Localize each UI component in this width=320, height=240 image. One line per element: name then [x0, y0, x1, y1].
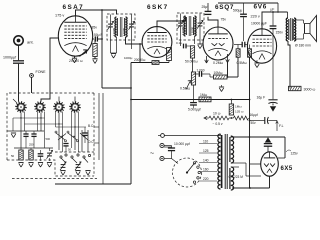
coil second leads — [13, 112, 79, 153]
svg-text:6SK7: 6SK7 — [147, 4, 169, 11]
svg-text:50μ F: 50μ F — [94, 33, 103, 37]
svg-text:Ø 180 mm: Ø 180 mm — [295, 44, 311, 48]
svg-text:85v: 85v — [92, 26, 98, 30]
capacitor 50uuf osc — [93, 33, 103, 42]
svg-text:6X5: 6X5 — [281, 166, 293, 172]
ground band b — [28, 163, 33, 168]
svg-text:3000 ω: 3000 ω — [304, 88, 316, 92]
wire secondary to speaker — [294, 20, 304, 39]
antenna terminal — [14, 36, 34, 45]
svg-text:12000: 12000 — [181, 27, 185, 35]
wire band risers — [94, 93, 103, 184]
coil L4 osc SW — [69, 101, 81, 113]
coil L2 antenna SW — [34, 101, 46, 113]
output transformer primary — [286, 18, 289, 41]
resistor 10M grid — [214, 71, 228, 79]
capacitor 10000uuf line — [162, 142, 190, 159]
wire 6X5 cathode left — [250, 163, 261, 165]
trimmer band e — [60, 162, 66, 170]
svg-text:5.000μμf: 5.000μμf — [188, 108, 201, 112]
label 10000uuf — [251, 22, 267, 26]
top bus wire — [218, 3, 279, 13]
svg-text:1Mω: 1Mω — [235, 105, 242, 109]
capacitor 6V6 grid coupling — [234, 42, 247, 48]
label 500 band — [46, 137, 51, 141]
IFT1 shield box dashed — [107, 14, 135, 40]
label O.C. — [88, 140, 95, 144]
IFT1 stub wires — [111, 15, 132, 50]
capacitor tone across primary — [270, 12, 277, 99]
IFT1 core — [120, 17, 122, 37]
svg-text:FONE: FONE — [36, 70, 47, 74]
svg-text:~: ~ — [150, 151, 154, 158]
wire row y124 — [25, 123, 63, 124]
label 150v — [276, 31, 284, 35]
wire load to pot — [192, 58, 194, 72]
svg-text:10Mω: 10Mω — [214, 71, 223, 75]
ground IFT2 right stub — [197, 40, 202, 49]
ground 6V6 heater — [254, 60, 259, 68]
IFT2 trimmer right — [197, 20, 203, 28]
svg-text:175 v: 175 v — [55, 14, 64, 18]
wire 6SK7 plate up — [157, 17, 186, 27]
oscillator grid arrow — [80, 50, 88, 57]
capacitor band c — [38, 150, 44, 161]
band box dashed outline — [7, 93, 94, 176]
wire AVC bus horizontal — [131, 99, 250, 101]
label 175v — [55, 14, 64, 18]
wire 6SA7 plate up — [76, 10, 117, 16]
svg-text:125: 125 — [203, 149, 209, 153]
IFT2 core — [189, 16, 191, 36]
ground band f — [75, 171, 80, 176]
svg-text:50: 50 — [68, 148, 71, 152]
wire antenna cap to coil box — [18, 64, 20, 102]
ground osc resistor — [92, 57, 97, 64]
capacitor 1000uuf antenna series — [3, 56, 24, 64]
wire band bottom bus — [55, 183, 131, 185]
IFT2 secondary coil — [194, 16, 196, 36]
IFT2 primary coil — [184, 16, 186, 36]
tube V1 6SA7 converter — [58, 4, 92, 56]
svg-text:1.000: 1.000 — [197, 69, 205, 73]
tube V2 6SK7 IF amplifier — [142, 4, 172, 57]
arrow bias left — [204, 116, 209, 119]
label B.C. — [88, 124, 94, 128]
resistor band a — [11, 148, 23, 160]
svg-text:25μf: 25μf — [202, 5, 209, 9]
svg-text:1000μ: 1000μ — [124, 56, 133, 60]
svg-text:20.000 ω: 20.000 ω — [69, 59, 83, 63]
svg-text:500μμ: 500μμ — [233, 9, 242, 13]
tube V5 6X5 rectifier — [261, 152, 293, 176]
IFT2 shield box dashed — [177, 13, 204, 40]
svg-text:0.1μ: 0.1μ — [176, 41, 182, 45]
svg-text:75v: 75v — [221, 18, 227, 22]
ground 6SA7 cathode — [72, 56, 77, 63]
label 220v — [251, 15, 260, 19]
wire antenna down — [18, 45, 20, 60]
svg-text:6SQ7: 6SQ7 — [215, 4, 234, 11]
svg-text:10.000 μμf: 10.000 μμf — [174, 142, 190, 146]
IFT1 trimmer right — [129, 21, 135, 29]
ground left column — [11, 133, 16, 138]
wire row y131 — [7, 130, 44, 132]
resistor 135 ohm vertical — [229, 99, 244, 115]
label 20000 ohm — [134, 58, 146, 62]
wire fone down — [31, 77, 33, 93]
svg-text:500: 500 — [46, 137, 51, 141]
svg-text:135 ω: 135 ω — [235, 110, 244, 114]
resistor bias zigzag 2 — [234, 116, 249, 120]
svg-text:250: 250 — [29, 143, 34, 147]
label 10 ohm — [213, 112, 221, 116]
voltage selector — [172, 158, 202, 187]
coil leads down — [13, 97, 88, 153]
primary taps 110-220 — [199, 140, 217, 182]
resistor grid leak b — [248, 45, 252, 58]
svg-text:160: 160 — [203, 168, 209, 172]
coil L1 antenna BC — [15, 101, 27, 113]
label minus 0.5v — [213, 122, 223, 126]
wire row y148 — [14, 147, 53, 149]
resistor 20000 osc grid leak — [69, 39, 97, 63]
svg-text:O.C.: O.C. — [88, 140, 95, 144]
wire zigzag joins — [229, 117, 234, 119]
switch sub-box top dashed — [55, 151, 94, 153]
capacitor 5000uuf pot bottom — [188, 85, 201, 112]
IFT2 trimmer left — [178, 20, 184, 28]
switch wafer diagonals — [55, 131, 88, 148]
output transformer secondary — [293, 18, 296, 41]
svg-text:CH 223 M: CH 223 M — [229, 175, 244, 179]
ground band e — [60, 171, 65, 176]
wire 6SA7 grid to gang — [41, 38, 58, 102]
svg-text:6V6: 6V6 — [254, 4, 267, 11]
power transformer core — [225, 134, 227, 189]
label 0.2 Mohm — [213, 61, 224, 65]
svg-text:− 0.5 v: − 0.5 v — [213, 122, 223, 126]
FONE terminal — [30, 70, 46, 77]
diode plate arrow 6SQ7 — [226, 54, 230, 63]
wire HV to rectifier — [231, 137, 286, 158]
wire IFT1 sec to 6SK7 grid — [126, 37, 143, 63]
svg-text:50: 50 — [11, 154, 15, 158]
wire B+ feed vertical — [101, 9, 103, 88]
volume potentiometer 0.5M — [180, 72, 196, 91]
svg-text:F.L: F.L — [279, 124, 284, 128]
svg-text:220 v: 220 v — [251, 15, 260, 19]
svg-text:0.5Mω: 0.5Mω — [237, 61, 248, 65]
IFT1 secondary coil — [125, 17, 127, 37]
svg-text:0.2Mω: 0.2Mω — [213, 61, 224, 65]
capacitor 0.1 below IFT2 — [176, 40, 191, 48]
label 125v — [286, 150, 298, 156]
capacitor 16uF filter — [257, 96, 278, 112]
IFT1 trimmer left — [108, 21, 114, 29]
svg-text:12000: 12000 — [122, 28, 126, 36]
IFT2 stub wires — [181, 14, 201, 45]
diode arrow left 6SQ7 — [205, 56, 209, 63]
wire B minus rail — [249, 57, 251, 188]
power transformer primary — [218, 134, 222, 189]
capacitor 500uuf top — [233, 3, 247, 41]
capacitor mid band b — [82, 127, 87, 143]
band switch contacts — [60, 154, 91, 163]
ground band a — [18, 163, 23, 168]
label mica band — [68, 148, 71, 152]
svg-text:μF: μF — [271, 8, 275, 12]
svg-text:150v: 150v — [276, 31, 284, 35]
svg-text:10000 μμF: 10000 μμF — [251, 22, 267, 26]
svg-text:12000: 12000 — [112, 28, 116, 36]
wire grid node — [227, 57, 238, 78]
wire primary bottom B+ — [288, 41, 290, 86]
wire row y118 — [13, 117, 45, 118]
svg-text:125v: 125v — [291, 152, 299, 156]
label 85v screen — [92, 26, 98, 30]
capacitor 1000uuf coupling — [194, 69, 214, 78]
svg-text:16μμf: 16μμf — [250, 113, 258, 117]
capacitor 10uF filter — [250, 113, 278, 125]
wire cathode bus — [131, 62, 169, 64]
ground band g — [85, 171, 90, 176]
power switch — [158, 134, 221, 138]
capacitor 25uuf grid — [202, 3, 219, 27]
power transformer HV secondary — [230, 136, 234, 163]
svg-text:16μ F: 16μ F — [257, 96, 266, 100]
node bus junction — [130, 99, 132, 101]
svg-text:140: 140 — [203, 159, 209, 163]
secondary tap stubs — [231, 163, 261, 176]
svg-text:1000μμf: 1000μμf — [3, 56, 16, 60]
capacitor padder b — [31, 131, 36, 148]
label 1000 cathode — [124, 56, 133, 60]
trimmer band d — [47, 148, 53, 161]
ground near pot — [219, 85, 224, 92]
AC plug — [150, 143, 164, 160]
wire 6X5 bottom — [232, 176, 270, 189]
resistor 3000 screen — [289, 86, 316, 92]
svg-text:20000ω: 20000ω — [134, 58, 146, 62]
output transformer core — [291, 18, 293, 41]
IFT1 primary coil — [115, 17, 117, 37]
trimmer band f — [75, 162, 81, 170]
resistor 1M on bus — [199, 93, 211, 102]
resistor grid leak a — [236, 45, 240, 58]
label 10uF top — [271, 8, 275, 12]
label CH223M — [229, 175, 244, 179]
tube V4 6V6 output — [247, 4, 276, 64]
label 0.5M — [237, 61, 248, 65]
label speaker size — [295, 44, 311, 48]
svg-text:110: 110 — [203, 140, 208, 144]
svg-text:220: 220 — [203, 177, 209, 181]
capacitor padder a — [23, 131, 28, 148]
label 250 band — [29, 143, 34, 147]
tube V3 6SQ7 det-AF — [203, 4, 234, 60]
ground band d — [47, 163, 52, 168]
speaker — [305, 16, 317, 42]
resistor band b — [29, 148, 33, 160]
gang linkage dashed — [12, 178, 97, 180]
svg-text:0.5Mω: 0.5Mω — [180, 87, 191, 91]
svg-text:1Mω: 1Mω — [200, 93, 208, 97]
svg-text:ant.: ant. — [27, 40, 34, 45]
svg-text:B.C: B.C — [88, 124, 94, 128]
label 75v — [221, 18, 227, 22]
wire diode load — [227, 63, 229, 78]
resistor on cathode bus — [152, 61, 159, 65]
capacitor mid band — [63, 144, 68, 153]
svg-text:10 ω: 10 ω — [213, 112, 221, 116]
resistor 6SK7 cathode — [167, 48, 172, 63]
wire primary top — [287, 12, 289, 18]
svg-text:50.000ω: 50.000ω — [185, 60, 198, 64]
resistor 50000 diode load — [185, 46, 198, 64]
IFT2 value labels — [181, 27, 194, 35]
coil L3 osc BC — [53, 101, 65, 113]
IFT1 value labels — [112, 28, 126, 36]
capacitor 8uF rect output — [264, 134, 272, 152]
power transformer heater winding — [230, 167, 234, 190]
svg-text:12000: 12000 — [191, 27, 195, 35]
wire row y127 — [56, 126, 87, 127]
IFT1 lower stubs — [111, 40, 117, 58]
resistor hum 10ohm zigzag — [209, 116, 229, 120]
ground band c — [38, 163, 43, 168]
field coil lead F.L. — [276, 121, 284, 132]
wire elbow to bus — [102, 63, 132, 185]
wire 6V6 plate up — [262, 11, 288, 29]
svg-text:50v: 50v — [251, 121, 257, 125]
